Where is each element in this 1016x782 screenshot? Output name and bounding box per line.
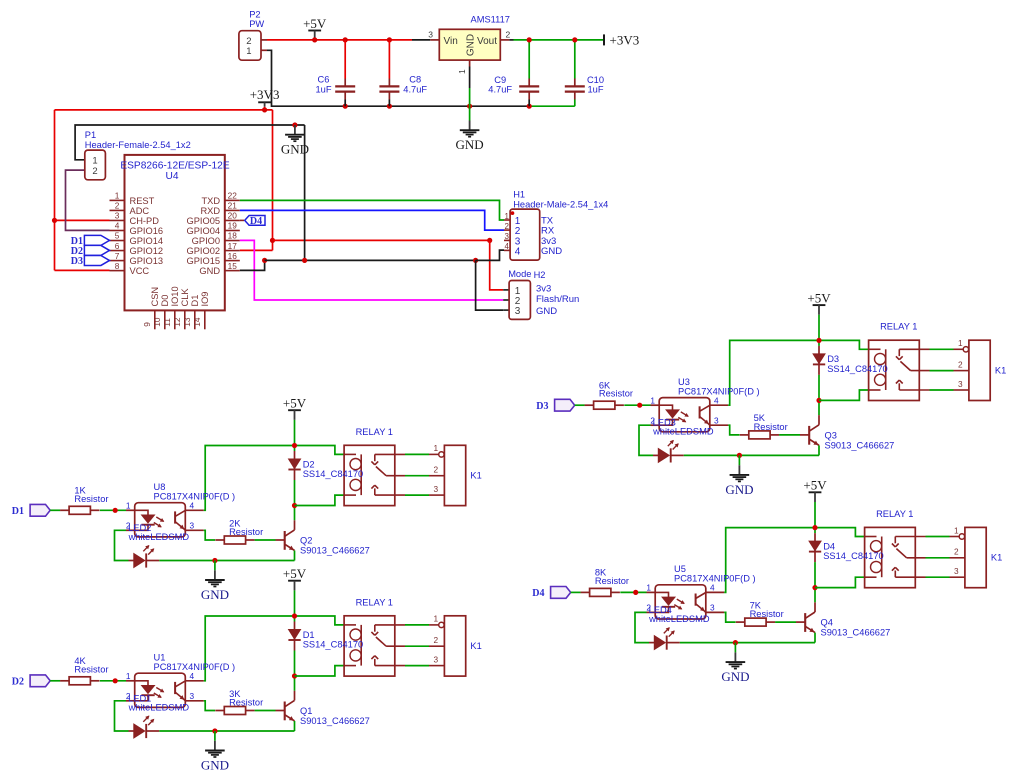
- svg-text:whiteLEDSMD: whiteLEDSMD: [128, 532, 190, 542]
- svg-text:Flash/Run: Flash/Run: [536, 294, 579, 305]
- svg-text:Resistor: Resistor: [74, 494, 108, 504]
- svg-text:GND: GND: [536, 306, 557, 317]
- svg-text:D4: D4: [250, 216, 262, 227]
- svg-text:GPIO13: GPIO13: [130, 256, 164, 266]
- svg-text:ADC: ADC: [130, 206, 150, 216]
- svg-text:K1: K1: [995, 366, 1006, 376]
- svg-text:3: 3: [515, 306, 521, 317]
- svg-text:PC817X4NIP0F(D ): PC817X4NIP0F(D ): [674, 574, 756, 584]
- svg-text:RELAY 1: RELAY 1: [356, 597, 393, 607]
- svg-text:ESP8266-12E/ESP-12E: ESP8266-12E/ESP-12E: [120, 161, 230, 172]
- svg-text:21: 21: [228, 201, 238, 211]
- svg-text:U1: U1: [154, 653, 166, 663]
- svg-text:1: 1: [505, 212, 510, 221]
- svg-text:3v3: 3v3: [536, 284, 551, 295]
- svg-text:Resistor: Resistor: [229, 527, 263, 537]
- svg-text:17: 17: [228, 241, 238, 251]
- svg-text:15: 15: [228, 261, 238, 271]
- svg-text:22: 22: [228, 191, 238, 201]
- svg-text:10: 10: [152, 317, 162, 327]
- svg-text:S9013_C466627: S9013_C466627: [825, 440, 895, 450]
- svg-text:D0: D0: [160, 295, 170, 307]
- svg-text:GND: GND: [199, 266, 220, 276]
- svg-text:K1: K1: [470, 641, 481, 651]
- svg-text:Q2: Q2: [300, 535, 312, 545]
- svg-text:GPIO15: GPIO15: [187, 256, 221, 266]
- svg-text:Q4: Q4: [821, 618, 833, 628]
- svg-text:8: 8: [115, 261, 120, 271]
- svg-text:GPIO12: GPIO12: [130, 246, 164, 256]
- svg-text:REST: REST: [130, 196, 155, 206]
- svg-text:RELAY 1: RELAY 1: [880, 322, 917, 332]
- svg-text:4: 4: [115, 221, 120, 231]
- svg-text:2: 2: [115, 201, 120, 211]
- svg-text:D3: D3: [536, 401, 548, 412]
- svg-text:GPIO0: GPIO0: [192, 236, 220, 246]
- svg-text:PC817X4NIP0F(D ): PC817X4NIP0F(D ): [678, 386, 760, 396]
- svg-text:11: 11: [162, 318, 172, 327]
- svg-text:CLK: CLK: [180, 288, 190, 307]
- svg-text:D4: D4: [532, 588, 544, 599]
- svg-text:U3: U3: [678, 377, 690, 387]
- svg-text:IO9: IO9: [200, 292, 210, 307]
- svg-text:D1: D1: [12, 506, 24, 517]
- svg-text:IO10: IO10: [170, 286, 180, 306]
- svg-text:SS14_C84170: SS14_C84170: [303, 469, 363, 479]
- svg-text:Q3: Q3: [825, 430, 837, 440]
- svg-text:2: 2: [246, 36, 251, 47]
- svg-text:C8: C8: [409, 75, 421, 85]
- svg-text:16: 16: [228, 251, 238, 261]
- svg-text:GPIO05: GPIO05: [187, 216, 221, 226]
- svg-text:9: 9: [142, 322, 152, 327]
- svg-text:D1: D1: [190, 295, 200, 307]
- svg-text:whiteLEDSMD: whiteLEDSMD: [648, 614, 710, 624]
- svg-text:GND: GND: [465, 34, 476, 56]
- svg-text:RELAY 1: RELAY 1: [876, 509, 913, 519]
- svg-text:CH-PD: CH-PD: [130, 216, 160, 226]
- svg-text:GND: GND: [456, 137, 484, 152]
- svg-text:2: 2: [92, 166, 97, 177]
- svg-text:4.7uF: 4.7uF: [403, 85, 427, 95]
- svg-text:D4: D4: [823, 541, 835, 551]
- svg-text:4: 4: [515, 246, 521, 257]
- svg-text:4: 4: [505, 242, 510, 251]
- svg-text:13: 13: [182, 317, 192, 327]
- svg-text:RELAY 1: RELAY 1: [356, 427, 393, 437]
- svg-text:S9013_C466627: S9013_C466627: [300, 546, 370, 556]
- svg-text:20: 20: [228, 211, 238, 221]
- svg-text:Resistor: Resistor: [754, 422, 788, 432]
- svg-text:D3: D3: [71, 256, 83, 267]
- svg-text:VCC: VCC: [130, 266, 150, 276]
- svg-text:TXD: TXD: [201, 196, 220, 206]
- svg-text:PC817X4NIP0F(D ): PC817X4NIP0F(D ): [154, 662, 236, 672]
- svg-text:SS14_C84170: SS14_C84170: [303, 640, 363, 650]
- svg-text:5: 5: [115, 231, 120, 241]
- svg-text:C10: C10: [587, 75, 604, 85]
- svg-text:Resistor: Resistor: [599, 389, 633, 399]
- svg-text:1: 1: [115, 191, 120, 201]
- svg-text:GND: GND: [541, 246, 562, 257]
- svg-text:7: 7: [115, 251, 120, 261]
- svg-text:+5V: +5V: [303, 16, 327, 31]
- svg-text:Q1: Q1: [300, 706, 312, 716]
- svg-text:U4: U4: [165, 171, 178, 182]
- svg-text:U8: U8: [154, 482, 166, 492]
- svg-text:K1: K1: [470, 471, 481, 481]
- svg-text:RXD: RXD: [200, 206, 220, 216]
- svg-text:1: 1: [246, 46, 251, 57]
- svg-text:Resistor: Resistor: [750, 609, 784, 619]
- svg-text:1uF: 1uF: [587, 85, 603, 95]
- svg-text:Vout: Vout: [477, 36, 497, 47]
- svg-text:+3V3: +3V3: [250, 87, 280, 102]
- svg-text:GPIO14: GPIO14: [130, 236, 164, 246]
- svg-text:Header-Female-2.54_1x2: Header-Female-2.54_1x2: [85, 140, 191, 150]
- svg-text:S9013_C466627: S9013_C466627: [300, 716, 370, 726]
- svg-text:SS14_C84170: SS14_C84170: [823, 551, 883, 561]
- svg-text:whiteLEDSMD: whiteLEDSMD: [128, 702, 190, 712]
- svg-text:GPIO02: GPIO02: [187, 246, 221, 256]
- svg-text:4.7uF: 4.7uF: [488, 85, 512, 95]
- svg-text:GPIO04: GPIO04: [187, 226, 221, 236]
- svg-text:12: 12: [172, 317, 182, 327]
- svg-text:P1: P1: [85, 130, 96, 140]
- svg-text:C9: C9: [494, 75, 506, 85]
- svg-text:GPIO16: GPIO16: [130, 226, 164, 236]
- svg-text:H2: H2: [534, 270, 546, 280]
- svg-text:D2: D2: [12, 676, 24, 687]
- svg-text:D3: D3: [827, 354, 839, 364]
- svg-text:Resistor: Resistor: [74, 664, 108, 674]
- svg-text:SS14_C84170: SS14_C84170: [827, 364, 887, 374]
- svg-text:whiteLEDSMD: whiteLEDSMD: [652, 427, 714, 437]
- svg-text:Header-Male-2.54_1x4: Header-Male-2.54_1x4: [513, 199, 608, 209]
- svg-text:3: 3: [115, 211, 120, 221]
- svg-text:14: 14: [192, 317, 202, 327]
- svg-text:Mode: Mode: [508, 269, 531, 279]
- svg-text:Vin: Vin: [444, 36, 458, 47]
- svg-text:AMS1117: AMS1117: [471, 14, 510, 24]
- svg-text:PC817X4NIP0F(D ): PC817X4NIP0F(D ): [154, 492, 236, 502]
- svg-text:1: 1: [457, 69, 467, 74]
- svg-text:U5: U5: [674, 564, 686, 574]
- svg-text:19: 19: [228, 221, 238, 231]
- svg-text:+3V3: +3V3: [610, 32, 640, 47]
- svg-text:Resistor: Resistor: [595, 576, 629, 586]
- svg-text:D1: D1: [303, 630, 315, 640]
- svg-text:2: 2: [506, 30, 511, 40]
- svg-text:H1: H1: [513, 190, 525, 200]
- svg-text:3: 3: [505, 232, 510, 241]
- svg-text:CSN: CSN: [150, 287, 160, 307]
- svg-text:P2: P2: [249, 10, 260, 20]
- svg-text:PW: PW: [249, 19, 264, 29]
- svg-text:1uF: 1uF: [315, 85, 331, 95]
- svg-text:2: 2: [505, 222, 510, 231]
- svg-text:6: 6: [115, 241, 120, 251]
- svg-text:K1: K1: [991, 553, 1002, 563]
- svg-text:D2: D2: [303, 459, 315, 469]
- svg-text:18: 18: [228, 231, 238, 241]
- svg-text:C6: C6: [318, 75, 330, 85]
- svg-text:3: 3: [428, 30, 433, 40]
- svg-text:S9013_C466627: S9013_C466627: [821, 628, 891, 638]
- svg-text:Resistor: Resistor: [229, 698, 263, 708]
